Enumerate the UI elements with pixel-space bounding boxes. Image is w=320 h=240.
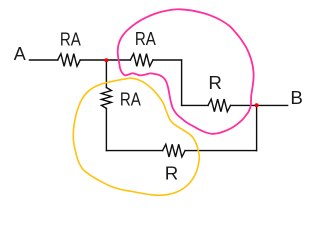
wire R5 down to bottom corner <box>105 108 107 150</box>
svg-text:RA: RA <box>120 90 141 110</box>
yellow highlight loop around RA3 and R4 <box>73 78 199 195</box>
wire corner to R3 <box>182 104 208 106</box>
svg-text:RA: RA <box>135 29 156 49</box>
svg-text:R: R <box>165 163 179 183</box>
node junction dot (left) <box>104 58 108 62</box>
wire R1 to node junction to R2 <box>80 59 130 61</box>
node B junction dot <box>255 103 259 107</box>
resistor R4 (R bottom) zigzag <box>163 144 186 157</box>
wire R2 to corner <box>153 59 182 61</box>
svg-text:B: B <box>290 88 303 108</box>
wire junction down to R5 <box>105 60 107 88</box>
svg-text:R: R <box>208 73 222 93</box>
wire node B down <box>256 105 258 150</box>
resistor R3 (R) zigzag <box>208 99 231 112</box>
svg-text:RA: RA <box>60 30 81 50</box>
svg-text:A: A <box>14 44 26 64</box>
resistor R1 (RA) zigzag <box>58 54 80 67</box>
wire A to R1 <box>30 59 58 61</box>
bottom wire left to R4 <box>106 150 162 152</box>
wire corner down <box>181 60 183 105</box>
pink highlight loop around RA2 and R3 <box>118 9 254 134</box>
bottom wire R4 to right corner <box>185 150 257 152</box>
resistor R2 (RA) zigzag <box>130 54 153 67</box>
wire R3 to node B and terminal <box>231 104 288 106</box>
resistor R5 (RA vertical) zigzag <box>101 88 111 109</box>
